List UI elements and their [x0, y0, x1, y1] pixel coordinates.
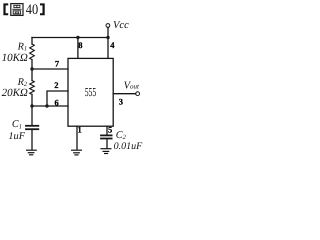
svg-text:555: 555: [85, 85, 97, 99]
svg-text:6: 6: [55, 97, 59, 107]
svg-text:2: 2: [54, 80, 58, 90]
svg-text:3: 3: [119, 96, 123, 106]
svg-text:C2: C2: [116, 130, 127, 141]
svg-text:R1: R1: [17, 41, 28, 52]
svg-text:8: 8: [78, 40, 82, 50]
svg-text:Vcc: Vcc: [113, 20, 129, 31]
svg-text:20KΩ: 20KΩ: [2, 87, 28, 99]
svg-text:Vout: Vout: [124, 80, 140, 91]
svg-text:C1: C1: [12, 119, 22, 130]
svg-text:40: 40: [26, 2, 38, 18]
svg-text:0.01uF: 0.01uF: [114, 141, 144, 152]
svg-text:7: 7: [55, 59, 60, 69]
svg-text:4: 4: [110, 40, 115, 50]
svg-text:10KΩ: 10KΩ: [2, 52, 28, 64]
svg-text:1: 1: [78, 125, 82, 135]
svg-text:1uF: 1uF: [8, 131, 25, 142]
svg-text:5: 5: [108, 125, 112, 135]
